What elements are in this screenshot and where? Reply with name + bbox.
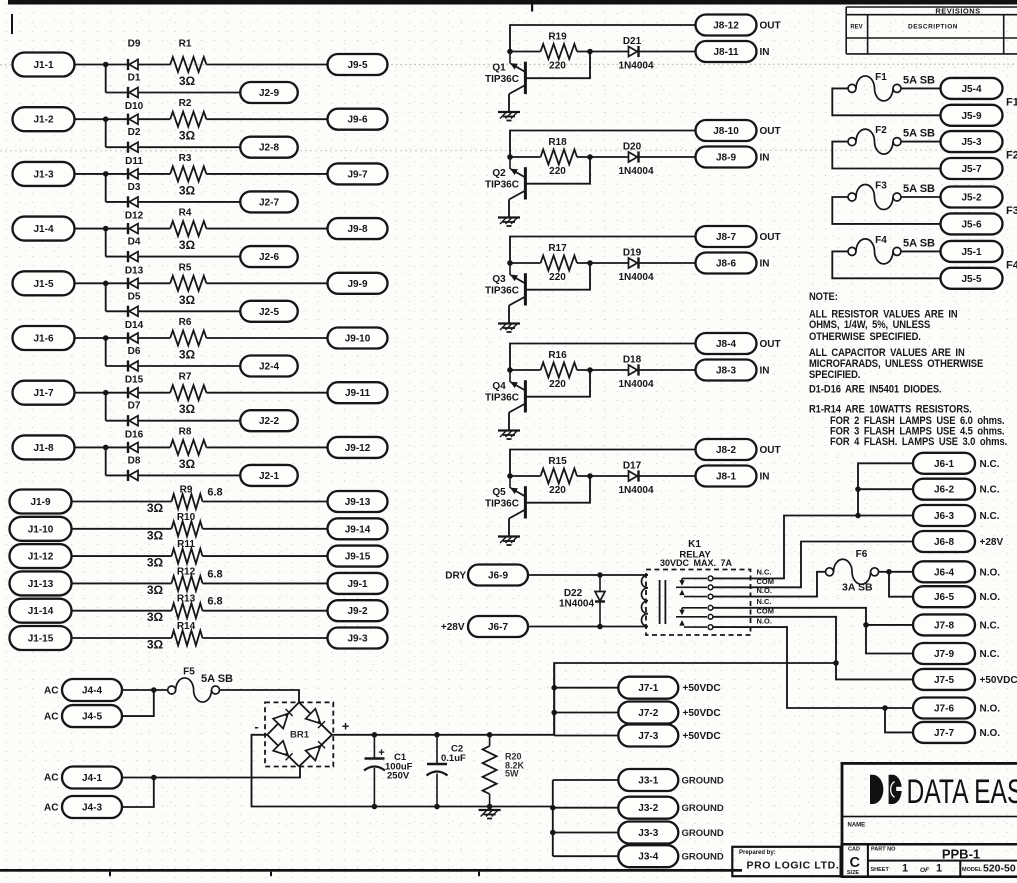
- wire R6 to J9-10: [206, 337, 327, 339]
- wire emitter Q5 to ground: [508, 519, 510, 537]
- svg-text:J1-12: J1-12: [28, 552, 54, 563]
- connector J7-9: [913, 643, 975, 664]
- connector J2-8: [240, 137, 298, 158]
- connector J2-7: [240, 191, 298, 212]
- svg-text:J5-9: J5-9: [961, 111, 981, 122]
- resistor R8: [170, 440, 206, 455]
- ground (Q2): [498, 218, 520, 227]
- connector J9-1: [328, 573, 388, 594]
- svg-text:5W: 5W: [505, 769, 519, 779]
- junction R20 top: [487, 732, 493, 738]
- svg-text:N.C.: N.C.: [757, 597, 772, 606]
- wire to J7-1: [554, 687, 618, 689]
- junction J7-7 tap: [882, 705, 888, 711]
- fuse F3: [848, 185, 901, 210]
- connector J1-1: [13, 53, 75, 77]
- svg-text:N.O.: N.O.: [757, 617, 772, 626]
- wire R5 to J9-9: [206, 282, 327, 284]
- svg-text:J9-13: J9-13: [345, 497, 371, 508]
- resistor R3: [170, 166, 206, 181]
- wire F3 to J5-2: [901, 196, 941, 198]
- wire relay COM2 to J7-5: [713, 617, 913, 680]
- wire J1-9 to R9: [72, 501, 172, 503]
- relay K1 coil: [642, 575, 648, 627]
- wire R11 to J9-15: [203, 555, 328, 557]
- svg-text:F5: F5: [183, 667, 195, 678]
- wire R12 to J9-1: [203, 582, 328, 584]
- svg-text:1N4004: 1N4004: [618, 379, 653, 390]
- relay contact set 2: [676, 605, 713, 629]
- connector J7-1: [618, 677, 678, 699]
- diode D10: [128, 114, 138, 125]
- svg-text:J7-8: J7-8: [934, 620, 954, 631]
- wire R3 to J9-7: [206, 173, 327, 175]
- svg-text:F3: F3: [1006, 205, 1017, 217]
- svg-text:3Ω: 3Ω: [179, 238, 196, 252]
- connector J7-8: [913, 614, 975, 635]
- wire relay NO2 to J7-6: [713, 627, 913, 708]
- wire F4 to J5-1: [901, 250, 941, 252]
- svg-text:D3: D3: [128, 182, 141, 193]
- wire relay NC2 to J7-9: [713, 608, 913, 654]
- resistor R7: [170, 385, 206, 400]
- svg-text:D4: D4: [128, 237, 141, 248]
- wire ground vertical to J3-1..4: [552, 780, 554, 856]
- svg-text:R2: R2: [179, 98, 192, 109]
- transistor Q2: [509, 157, 525, 200]
- connector J5-4: [941, 78, 1003, 99]
- svg-text:J8-10: J8-10: [713, 126, 739, 137]
- wire R17 to D19: [577, 262, 628, 264]
- wire to J3-3: [553, 832, 619, 834]
- svg-text:D19: D19: [623, 248, 642, 259]
- svg-text:J2-9: J2-9: [259, 88, 279, 99]
- svg-text:J6-9: J6-9: [488, 571, 508, 582]
- diode D5: [128, 306, 138, 317]
- svg-text:J1-13: J1-13: [28, 579, 54, 590]
- connector J1-4: [13, 217, 75, 241]
- wire branch J1-1 down: [105, 65, 107, 93]
- wire D9 to R1: [138, 64, 170, 66]
- connector J7-5: [913, 669, 975, 690]
- frame bottom tick 2: [270, 872, 272, 877]
- svg-text:+50VDC: +50VDC: [980, 675, 1017, 686]
- svg-text:D7: D7: [128, 401, 141, 412]
- wire F2 left loop: [832, 142, 940, 169]
- resistor R4: [170, 221, 206, 236]
- svg-text:R7: R7: [179, 372, 192, 383]
- connector J6-2: [913, 479, 975, 500]
- svg-text:J9-14: J9-14: [345, 524, 371, 535]
- connector J7-3: [618, 725, 678, 747]
- svg-text:R14: R14: [177, 621, 196, 632]
- wire collector Q5 to J8-2 (OUT): [510, 450, 696, 477]
- wire R2 to J9-6: [206, 118, 327, 120]
- connector J4-1: [62, 767, 122, 789]
- frame left edge remnant: [11, 14, 13, 34]
- svg-text:+50VDC: +50VDC: [683, 708, 721, 719]
- wire R15 to D17: [577, 475, 628, 477]
- wire J6-9 to relay coil: [528, 574, 648, 576]
- svg-text:AC: AC: [44, 686, 58, 697]
- connector J4-3: [62, 796, 122, 818]
- svg-text:J2-8: J2-8: [259, 143, 279, 154]
- svg-text:F1: F1: [1006, 96, 1017, 108]
- wire to J7-2: [554, 712, 618, 714]
- wire bus to J6-1 and J6-2: [858, 463, 913, 515]
- svg-text:J4-1: J4-1: [82, 773, 102, 784]
- connector J5-3: [941, 131, 1003, 152]
- ground (Q5): [498, 537, 520, 546]
- connector J8-2: [696, 439, 757, 460]
- junction D22 top: [597, 572, 603, 578]
- svg-text:Q1: Q1: [492, 63, 506, 74]
- wire node to R16: [510, 369, 541, 371]
- svg-text:220: 220: [549, 61, 566, 72]
- wire branch J1-5 down: [105, 283, 107, 311]
- ground (Q3): [498, 324, 520, 333]
- wire BR1 plus rail: [332, 663, 836, 735]
- svg-text:+28V: +28V: [980, 537, 1004, 548]
- svg-text:F1: F1: [875, 72, 887, 83]
- wire D11 to R3: [138, 173, 170, 175]
- transistor Q5: [509, 476, 525, 519]
- junction C2 top: [434, 732, 440, 738]
- ground (Q4): [498, 431, 520, 440]
- connector J1-3: [13, 162, 75, 186]
- connector J5-2: [941, 187, 1003, 208]
- wire J1-5 to D13: [75, 282, 129, 284]
- svg-text:J7-3: J7-3: [638, 731, 658, 742]
- connector J2-5: [240, 301, 298, 322]
- svg-text:DATA EAST: DATA EAST: [907, 773, 1017, 811]
- svg-text:AC: AC: [44, 803, 58, 814]
- svg-text:3Ω: 3Ω: [147, 501, 164, 515]
- wire R8 to J9-12: [206, 446, 327, 448]
- svg-text:IN: IN: [760, 472, 770, 483]
- connector J5-7: [941, 158, 1003, 179]
- svg-text:J6-2: J6-2: [934, 485, 954, 496]
- connector J3-2: [618, 797, 678, 819]
- wire base drop Q5: [525, 476, 590, 503]
- svg-text:NOTE:: NOTE:: [809, 291, 838, 303]
- wire +50VDC vertical to J7-1/2/3: [553, 663, 555, 736]
- svg-text:SPECIFIED.: SPECIFIED.: [809, 369, 861, 381]
- svg-text:D12: D12: [125, 211, 144, 222]
- svg-text:FOR 4 FLASH. LAMPS USE 3.0 ohm: FOR 4 FLASH. LAMPS USE 3.0 ohms.: [830, 437, 1007, 449]
- svg-text:D13: D13: [125, 265, 144, 276]
- svg-text:F2: F2: [1006, 150, 1017, 162]
- resistor R12: [172, 576, 203, 591]
- svg-text:220: 220: [549, 485, 566, 496]
- svg-text:3Ω: 3Ω: [179, 74, 196, 88]
- wire F6 output to J6-5: [889, 572, 913, 597]
- connector J6-8: [913, 531, 975, 552]
- svg-text:3Ω: 3Ω: [147, 638, 164, 652]
- wire R10 to J9-14: [203, 528, 328, 530]
- svg-text:J1-15: J1-15: [28, 634, 54, 645]
- wire D7 to J2-2: [138, 420, 240, 422]
- wire R16 to D18: [577, 369, 628, 371]
- connector J3-3: [618, 822, 678, 844]
- junction J7-8 tap: [863, 622, 869, 628]
- note text block: [809, 291, 1007, 448]
- connector J8-11: [696, 41, 757, 62]
- svg-text:+28V: +28V: [441, 622, 465, 633]
- svg-text:1N4004: 1N4004: [618, 166, 653, 177]
- resistor R18: [541, 150, 577, 165]
- svg-text:-: -: [254, 719, 258, 734]
- junction base node Q3: [587, 260, 593, 266]
- wire branch J1-4 down: [105, 229, 107, 257]
- wire D19 to J8-6 (IN): [639, 262, 696, 264]
- svg-text:J4-4: J4-4: [82, 686, 102, 697]
- svg-text:+50VDC: +50VDC: [683, 683, 721, 694]
- svg-text:GROUND: GROUND: [682, 828, 724, 839]
- svg-text:J9-15: J9-15: [345, 552, 371, 563]
- svg-text:1N4004: 1N4004: [618, 61, 653, 72]
- diode D2: [128, 142, 138, 153]
- connector J5-9: [941, 105, 1003, 126]
- svg-text:J2-4: J2-4: [259, 362, 279, 373]
- svg-text:CAD: CAD: [848, 847, 860, 853]
- wire R1 to J9-5: [206, 64, 327, 66]
- svg-text:GROUND: GROUND: [682, 776, 724, 787]
- svg-text:R13: R13: [177, 594, 196, 605]
- resistor R10: [172, 521, 203, 536]
- svg-text:5A SB: 5A SB: [201, 673, 233, 685]
- connector J8-3: [696, 360, 757, 381]
- junction collector node Q2: [507, 154, 513, 160]
- svg-text:J2-5: J2-5: [259, 307, 279, 318]
- wire J1-4 to D12: [75, 228, 129, 230]
- svg-text:GROUND: GROUND: [682, 803, 724, 814]
- wire node to R18: [510, 156, 541, 158]
- connector J9-7: [328, 163, 388, 184]
- svg-text:3Ω: 3Ω: [147, 528, 164, 542]
- wire F4 left loop: [832, 251, 940, 278]
- wire J6-7 to relay coil: [528, 626, 648, 628]
- svg-text:K1: K1: [688, 539, 701, 550]
- wire emitter Q1 to ground: [508, 94, 510, 112]
- transistor Q1: [509, 52, 525, 95]
- junction node J1-7: [103, 390, 109, 396]
- relay contact set 1: [676, 576, 713, 599]
- revision table: [846, 7, 1017, 54]
- svg-text:1: 1: [936, 863, 942, 875]
- svg-text:J9-6: J9-6: [347, 115, 367, 126]
- fuse F2: [848, 129, 901, 154]
- wire node to R17: [510, 262, 541, 264]
- svg-text:J9-12: J9-12: [345, 443, 371, 454]
- wire D14 to R6: [138, 337, 170, 339]
- svg-text:3Ω: 3Ω: [179, 183, 196, 197]
- svg-text:D5: D5: [128, 291, 141, 302]
- junction J7-1 tap: [551, 685, 557, 691]
- connector J9-13: [328, 491, 388, 512]
- svg-text:D8: D8: [128, 455, 141, 466]
- junction node J1-2: [103, 116, 109, 122]
- junction J3-2 tap: [550, 805, 556, 811]
- logo Data East E glyph: [889, 775, 903, 804]
- wire emitter Q2 to ground: [508, 200, 510, 218]
- scan artifact band 2: [0, 149, 1016, 152]
- svg-text:J9-7: J9-7: [347, 169, 367, 180]
- connector J1-6: [13, 326, 75, 350]
- svg-text:R16: R16: [548, 350, 567, 361]
- svg-text:N.O.: N.O.: [980, 728, 1001, 739]
- svg-text:J1-6: J1-6: [33, 334, 53, 345]
- connector J9-10: [328, 328, 388, 349]
- connector J4-4: [62, 679, 122, 701]
- diode D14: [128, 332, 138, 343]
- svg-text:J9-8: J9-8: [347, 224, 367, 235]
- junction base node Q5: [587, 473, 593, 479]
- resistor R16: [541, 363, 577, 378]
- svg-text:D21: D21: [623, 36, 642, 47]
- capacitor C1: [364, 735, 385, 807]
- connector J9-14: [328, 518, 388, 539]
- wire to J3-2: [553, 807, 619, 809]
- svg-text:IN: IN: [760, 366, 770, 377]
- diode D6: [128, 360, 138, 371]
- wire to J7-3: [554, 735, 618, 737]
- svg-text:J9-5: J9-5: [347, 60, 367, 71]
- ground (Q1): [498, 112, 520, 121]
- connector J5-1: [941, 241, 1003, 262]
- junction J4-4/J4-5: [151, 687, 157, 693]
- connector J9-15: [328, 546, 388, 567]
- wire D15 to R7: [138, 392, 170, 394]
- svg-text:3A SB: 3A SB: [842, 582, 873, 594]
- junction J6-2 tap: [855, 486, 861, 492]
- svg-text:R5: R5: [179, 262, 192, 273]
- svg-text:Q3: Q3: [492, 274, 506, 285]
- svg-text:N.O.: N.O.: [980, 592, 1001, 603]
- svg-text:REVISIONS: REVISIONS: [935, 7, 980, 16]
- connector J9-9: [328, 273, 388, 294]
- junction collector node Q5: [507, 473, 513, 479]
- svg-text:J1-7: J1-7: [33, 388, 53, 399]
- connector J9-6: [328, 109, 388, 130]
- wire R4 to J9-8: [206, 228, 327, 230]
- junction J3-3 tap: [550, 830, 556, 836]
- svg-text:Q2: Q2: [492, 168, 506, 179]
- junction collector node Q4: [507, 367, 513, 373]
- wire J1-6 to D14: [75, 337, 129, 339]
- svg-text:D18: D18: [623, 355, 642, 366]
- svg-text:N.C.: N.C.: [980, 620, 1000, 631]
- connector J8-6: [696, 253, 757, 274]
- connector J7-7: [913, 722, 975, 743]
- connector J8-12: [696, 15, 757, 36]
- svg-text:PRO LOGIC LTD.: PRO LOGIC LTD.: [747, 860, 840, 872]
- wire branch J1-6 down: [105, 338, 107, 366]
- svg-text:N.C.: N.C.: [980, 459, 1000, 470]
- svg-text:J1-10: J1-10: [28, 524, 54, 535]
- svg-text:J8-2: J8-2: [716, 445, 736, 456]
- capacitor C2: [427, 735, 448, 807]
- wire F1 left loop: [832, 88, 940, 115]
- connector J1-10: [10, 517, 72, 541]
- svg-text:J7-2: J7-2: [638, 708, 658, 719]
- wire J4-4 to F5: [122, 689, 168, 691]
- diode D8: [128, 470, 138, 481]
- wire base drop Q3: [525, 263, 590, 290]
- connector J9-8: [328, 218, 388, 239]
- wire F6 to J6-4: [879, 571, 913, 573]
- diode D15: [128, 387, 138, 398]
- wire J1-3 to D11: [75, 173, 129, 175]
- connector J6-1: [913, 453, 975, 474]
- svg-text:Prepared by:: Prepared by:: [739, 850, 776, 856]
- transistor Q3: [509, 263, 525, 306]
- fuse F6: [826, 559, 879, 584]
- connector J6-9: [468, 565, 528, 586]
- diode D19: [629, 257, 639, 268]
- svg-text:TIP36C: TIP36C: [485, 180, 519, 191]
- svg-text:J8-1: J8-1: [716, 472, 736, 483]
- svg-text:R1-R14 ARE 10WATTS RESISTORS.: R1-R14 ARE 10WATTS RESISTORS.: [809, 404, 972, 416]
- svg-text:OHMS, 1/4W, 5%, UNLESS: OHMS, 1/4W, 5%, UNLESS: [809, 319, 930, 331]
- junction +50VDC rail join: [833, 660, 839, 666]
- svg-text:J6-3: J6-3: [934, 511, 954, 522]
- svg-text:1: 1: [902, 863, 908, 875]
- resistor R11: [172, 549, 203, 564]
- wire BR1 minus to ground rail: [252, 735, 553, 807]
- wire D21 to J8-11 (IN): [639, 51, 696, 53]
- svg-text:+: +: [342, 719, 350, 734]
- svg-text:D1-D16 ARE IN5401 DIODES.: D1-D16 ARE IN5401 DIODES.: [809, 384, 942, 396]
- fuse F1: [848, 76, 901, 101]
- junction base node Q1: [587, 49, 593, 55]
- svg-text:N.C.: N.C.: [980, 649, 1000, 660]
- svg-text:J3-1: J3-1: [638, 776, 658, 787]
- junction collector node Q3: [507, 260, 513, 266]
- wire R9 to J9-13: [203, 501, 328, 503]
- svg-text:J5-2: J5-2: [961, 193, 981, 204]
- connector J6-3: [913, 505, 975, 526]
- svg-text:J5-6: J5-6: [961, 219, 981, 230]
- svg-text:N.C.: N.C.: [980, 511, 1000, 522]
- diode D9: [128, 59, 138, 70]
- logo Data East D glyph: [870, 775, 883, 804]
- svg-text:NAME: NAME: [848, 823, 866, 829]
- svg-text:+: +: [378, 747, 384, 759]
- svg-text:3Ω: 3Ω: [179, 293, 196, 307]
- svg-text:Q4: Q4: [492, 381, 506, 392]
- svg-text:220: 220: [549, 272, 566, 283]
- svg-text:30VDC MAX. 7A: 30VDC MAX. 7A: [660, 558, 733, 568]
- diode D7: [128, 415, 138, 426]
- svg-text:AC: AC: [44, 712, 58, 723]
- svg-text:Q5: Q5: [492, 487, 506, 498]
- svg-text:N.C.: N.C.: [980, 485, 1000, 496]
- relay K1 core: [660, 580, 666, 624]
- svg-text:OUT: OUT: [760, 339, 781, 350]
- svg-text:J3-2: J3-2: [638, 803, 658, 814]
- wire branch J1-7 down: [105, 393, 107, 421]
- svg-text:J9-2: J9-2: [347, 606, 367, 617]
- svg-text:TIP36C: TIP36C: [485, 74, 519, 85]
- svg-text:DRY: DRY: [445, 571, 466, 582]
- wire F2 to J5-3: [901, 141, 941, 143]
- svg-text:D10: D10: [125, 101, 144, 112]
- wire J1-1 to D9: [75, 64, 129, 66]
- bridge rectifier BR1: [265, 702, 333, 766]
- wire emitter Q4 to ground: [508, 413, 510, 431]
- svg-text:J9-3: J9-3: [347, 634, 367, 645]
